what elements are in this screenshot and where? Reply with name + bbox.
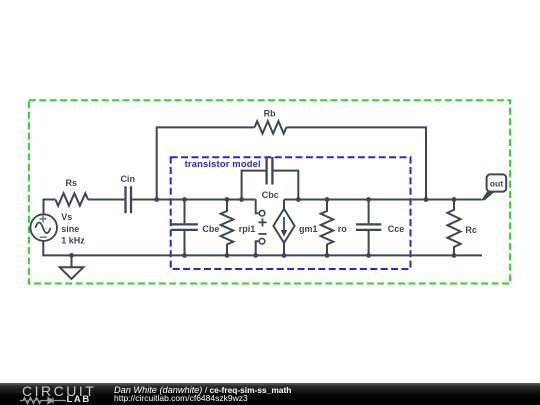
svg-text:Cbe: Cbe <box>202 224 219 234</box>
CircuitLab logo resistor-diode squiggle <box>20 396 68 405</box>
capacitor Cbe bottom stem <box>184 231 186 256</box>
junction: Rb tap on base wire <box>154 197 159 202</box>
wire bottom emitter rail <box>43 240 482 255</box>
svg-text:rpi1: rpi1 <box>239 224 256 234</box>
svg-text:Rs: Rs <box>66 178 78 188</box>
wire Cbc right branch <box>274 171 299 200</box>
resistor Rb <box>255 121 287 133</box>
svg-text:Rb: Rb <box>264 109 276 119</box>
sense terminal top circle <box>259 210 265 216</box>
junction: Rc top <box>452 197 457 202</box>
svg-text:Cce: Cce <box>388 224 405 234</box>
resistor rpi1 <box>221 200 234 256</box>
svg-text:Cbc: Cbc <box>262 190 279 200</box>
junction: rpi1 top <box>225 197 230 202</box>
wire Cin to base sense corner <box>132 199 256 201</box>
junction: Cbc left <box>239 197 244 202</box>
gm1 arrow <box>283 217 285 232</box>
junction: ground tap <box>69 253 74 258</box>
CircuitLab logo word LAB <box>67 395 91 404</box>
ground stem <box>71 255 73 267</box>
resistor Rs <box>55 193 88 205</box>
junction: Cbe top <box>182 197 187 202</box>
capacitor Cbe top stem <box>184 200 186 224</box>
resistor Rc <box>447 200 460 256</box>
sense minus sign <box>258 233 266 235</box>
junction: Cbe bottom <box>182 253 187 258</box>
wire Rs to Cin <box>88 199 124 201</box>
wire Rb left branch <box>157 127 255 199</box>
capacitor Cce bottom stem <box>368 231 370 256</box>
junction: Cbc right <box>296 197 301 202</box>
junction: Cce top <box>366 197 371 202</box>
svg-text:Vs: Vs <box>61 212 72 222</box>
wire Rb right branch <box>286 127 426 199</box>
svg-text:sine: sine <box>61 224 79 234</box>
footer line 1: author / title <box>114 386 291 395</box>
wire Cbc left branch <box>242 171 266 200</box>
junction: ro bottom <box>325 253 330 258</box>
wire base sense top branch <box>256 200 259 214</box>
source Vs circle <box>30 214 57 241</box>
junction: ro top <box>325 197 330 202</box>
junction: gm1 bottom <box>282 253 287 258</box>
gm1 bottom stem <box>283 243 285 256</box>
svg-text:1 kHz: 1 kHz <box>61 236 85 246</box>
capacitor Cce top stem <box>368 200 370 224</box>
sense plus sign <box>258 218 266 226</box>
dependent source gm1 diamond <box>273 209 294 243</box>
junction: rpi1 bottom <box>225 253 230 258</box>
junction: Cce bottom <box>366 253 371 258</box>
svg-text:Rc: Rc <box>465 225 477 235</box>
resistor ro <box>321 200 334 256</box>
source Vs plus sign <box>39 215 46 222</box>
transistor model blue dashed box <box>171 157 411 269</box>
svg-text:out: out <box>490 178 503 188</box>
wire collector rail with gm1 stem <box>284 200 482 209</box>
wire Vs top to Rs <box>44 200 56 214</box>
ground symbol triangle <box>60 267 84 279</box>
svg-text:gm1: gm1 <box>299 224 318 234</box>
footer bar <box>0 383 540 405</box>
capacitor Cbe plates <box>171 224 198 230</box>
out flag box <box>487 174 507 191</box>
svg-text:Cin: Cin <box>120 174 135 184</box>
wire base sense bottom branch <box>256 241 259 255</box>
sense terminal bottom circle <box>259 238 265 244</box>
capacitor Cbc plates <box>267 157 273 185</box>
capacitor Cce plates <box>356 224 381 230</box>
junction: Rb right on collector wire <box>424 197 429 202</box>
footer line 2: url <box>114 394 248 403</box>
svg-text:ro: ro <box>338 224 348 234</box>
source Vs sine wave <box>35 223 50 234</box>
svg-text:transistor model: transistor model <box>185 158 261 169</box>
CircuitLab logo word CIRCUIT <box>22 387 96 396</box>
source Vs minus sign <box>40 236 47 238</box>
simulation-region green dashed box <box>29 100 510 283</box>
capacitor Cin <box>126 186 132 213</box>
junction: Rc bottom <box>452 253 457 258</box>
out flag tail <box>454 199 481 201</box>
junction: sense bottom <box>253 253 258 258</box>
